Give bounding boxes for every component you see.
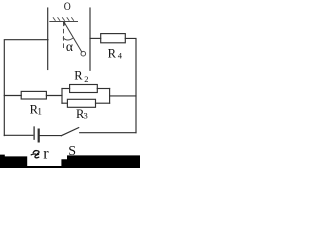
wire left rail outer (4, 40, 48, 136)
wire battery to switch (40, 135, 61, 137)
label EMF script epsilon (31, 151, 39, 158)
svg-text:3: 3 (84, 111, 88, 121)
svg-text:r: r (43, 146, 49, 163)
pendulum rod (64, 22, 82, 52)
svg-text:4: 4 (118, 51, 123, 61)
wire parallel pair to right rail (110, 95, 136, 97)
angle arc alpha (63, 38, 73, 40)
wire R1 left lead (4, 95, 21, 97)
svg-text:α: α (66, 39, 73, 54)
svg-text:O: O (64, 1, 71, 13)
pivot wedge (63, 22, 65, 26)
black strip bottom edge (0, 166, 140, 168)
black bar bottom right (61, 155, 140, 168)
wire to R2 left (62, 88, 70, 90)
black bar bottom left (0, 155, 27, 168)
wire pendulum right rail (89, 8, 91, 70)
wire R3 right (96, 102, 110, 104)
switch S lever (61, 128, 78, 136)
resistor R1 (21, 91, 46, 99)
battery cell long plate (33, 127, 35, 139)
resistor R2 (70, 85, 98, 93)
wire R2 right (97, 88, 109, 90)
wire switch to right rail (bottom right) (80, 132, 136, 134)
node left bracket of parallel pair (61, 89, 63, 104)
wire R1 right lead (46, 95, 62, 97)
svg-text:R: R (108, 47, 117, 61)
wire R4 right lead to right rail (125, 38, 136, 132)
resistor R4 (101, 34, 126, 43)
pendulum ball (81, 51, 86, 56)
node right bracket of parallel pair (109, 89, 111, 104)
svg-text:2: 2 (84, 74, 88, 84)
support hatching (53, 18, 73, 21)
dashed plumb line (63, 22, 65, 50)
svg-text:1: 1 (37, 106, 42, 116)
wire pendulum left rail (47, 8, 49, 70)
wire bottom left to battery (4, 134, 33, 136)
battery cell short plate (38, 130, 40, 142)
wire to R3 left (62, 102, 67, 104)
svg-text:R: R (74, 68, 83, 82)
support ceiling line (50, 21, 78, 23)
wire R4 left lead (90, 37, 101, 39)
resistor R3 (67, 99, 95, 107)
